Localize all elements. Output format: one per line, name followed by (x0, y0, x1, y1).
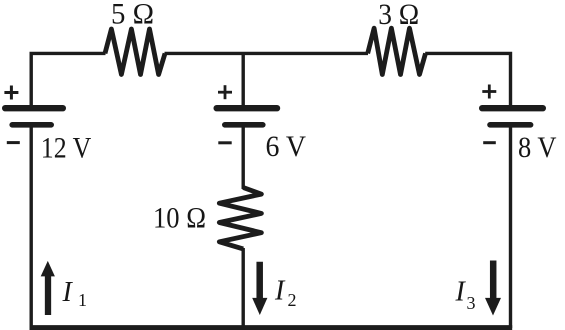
wire left side lower (30, 125, 33, 328)
wire middle branch lower (241, 248, 244, 328)
svg-text:2: 2 (288, 290, 297, 310)
svg-text:10 Ω: 10 Ω (153, 201, 206, 234)
svg-text:8 V: 8 V (518, 131, 557, 164)
wire top-left corner (31, 53, 105, 108)
minus terminal V2 (218, 141, 231, 144)
label I2 (274, 276, 297, 311)
label I1 (62, 277, 88, 310)
svg-text:I: I (455, 277, 467, 308)
svg-text:3 Ω: 3 Ω (378, 0, 419, 31)
wire top middle segment (165, 52, 369, 55)
plus terminal V1 (4, 86, 18, 100)
wire bottom (30, 325, 513, 330)
label I3 (455, 277, 476, 314)
battery V1 12V (5, 108, 63, 125)
resistor R2 3ohm (368, 28, 426, 74)
plus terminal V2 (218, 85, 232, 99)
plus terminal V3 (482, 85, 496, 99)
svg-text:I: I (274, 276, 286, 307)
svg-text:1: 1 (78, 290, 87, 310)
svg-text:12 V: 12 V (41, 132, 92, 165)
minus terminal V3 (483, 141, 496, 144)
resistor R3 10ohm (219, 188, 261, 249)
wire top-right corner (425, 53, 510, 108)
svg-text:6 V: 6 V (266, 130, 307, 163)
minus terminal V1 (7, 141, 20, 144)
current arrow I1 (41, 261, 55, 315)
current arrow I2 (252, 262, 267, 315)
battery V2 6V (217, 108, 277, 125)
wire middle battery to R3 (241, 125, 244, 189)
svg-text:5 Ω: 5 Ω (111, 0, 154, 30)
resistor R1 5ohm (105, 29, 165, 75)
svg-text:3: 3 (467, 293, 476, 313)
wire right side lower (509, 125, 512, 328)
current arrow I3 (485, 261, 501, 316)
battery V3 8V (482, 108, 543, 125)
svg-text:I: I (62, 277, 74, 308)
wire middle branch top (241, 53, 244, 108)
